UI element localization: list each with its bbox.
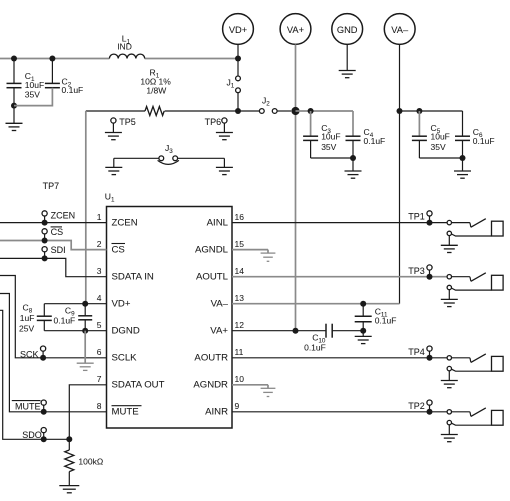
phone jack TP2 bbox=[441, 408, 503, 442]
svg-text:35V: 35V bbox=[25, 89, 40, 99]
junction node at C1 bbox=[11, 56, 17, 62]
svg-text:ZCEN: ZCEN bbox=[51, 211, 76, 221]
junction node C6 bottom bbox=[460, 155, 466, 161]
wire AGNDR bbox=[232, 385, 268, 389]
ground DGND bbox=[77, 331, 94, 371]
ground AGNDL bbox=[261, 253, 276, 261]
svg-text:7: 7 bbox=[97, 374, 102, 384]
svg-text:2: 2 bbox=[97, 239, 102, 249]
capacitor C8 bbox=[19, 302, 52, 333]
inductor L1 bbox=[109, 33, 144, 58]
node TP7 label bbox=[43, 181, 60, 191]
IC U1 body bbox=[105, 191, 232, 428]
junction node SDO pull-down bbox=[66, 436, 72, 442]
wire SDO net bbox=[0, 310, 69, 439]
svg-text:1uF: 1uF bbox=[20, 313, 35, 323]
capacitor C2 bbox=[45, 59, 83, 96]
node SDO test point bbox=[22, 428, 46, 443]
power terminal GND bbox=[332, 14, 363, 45]
svg-text:TP1: TP1 bbox=[408, 212, 425, 222]
svg-text:AINR: AINR bbox=[205, 407, 228, 418]
junction node VD+ rail bbox=[235, 56, 241, 62]
svg-text:ZCEN: ZCEN bbox=[112, 217, 138, 228]
svg-text:11: 11 bbox=[235, 347, 244, 357]
ground J3 right bbox=[216, 158, 233, 174]
svg-text:AOUTR: AOUTR bbox=[194, 353, 228, 364]
junction node C3 branch bbox=[308, 108, 314, 114]
svg-text:0.1uF: 0.1uF bbox=[62, 85, 84, 95]
ground C10 C11 bbox=[355, 331, 372, 344]
node ZCEN test point bbox=[42, 211, 76, 226]
junction node VD+ pin4 bbox=[82, 301, 88, 307]
node MUTE test point bbox=[12, 400, 47, 415]
svg-text:TP3: TP3 bbox=[408, 266, 425, 276]
svg-text:100kΩ: 100kΩ bbox=[78, 456, 103, 466]
svg-text:SDATA OUT: SDATA OUT bbox=[112, 380, 165, 391]
svg-text:CS: CS bbox=[51, 227, 64, 237]
power terminal VD+ bbox=[223, 14, 254, 59]
svg-text:SCLK: SCLK bbox=[112, 353, 138, 364]
U1 left pin numbers bbox=[97, 212, 102, 411]
wire VD+ top rail bbox=[0, 58, 238, 60]
capacitor C1 bbox=[7, 59, 45, 106]
wire AOUTR to TP4 bbox=[232, 357, 447, 359]
wire SDATA OUT net bbox=[69, 385, 106, 440]
wire VA- to pin13 bbox=[232, 303, 400, 305]
capacitor C6 bbox=[455, 111, 495, 158]
wire pin4 row bbox=[44, 303, 106, 305]
svg-text:DGND: DGND bbox=[112, 325, 140, 336]
wire C2 bottom to C1 bottom bbox=[14, 88, 52, 106]
U1 right pin numbers bbox=[235, 212, 245, 411]
junction node C11 top bbox=[360, 301, 366, 307]
node TP4 bbox=[408, 346, 432, 361]
ground TP5 bbox=[105, 123, 122, 140]
wire VD+ vertical to pin 4 bbox=[85, 111, 87, 304]
svg-text:TP5: TP5 bbox=[119, 117, 136, 127]
wire R1 line bbox=[86, 110, 238, 112]
svg-text:13: 13 bbox=[235, 293, 245, 303]
svg-text:TP7: TP7 bbox=[43, 181, 60, 191]
wire AOUTL to TP3 bbox=[232, 276, 447, 278]
svg-text:10uF: 10uF bbox=[431, 132, 450, 142]
capacitor C5 bbox=[412, 111, 450, 158]
node CS test point bbox=[42, 227, 64, 244]
node TP3 bbox=[408, 265, 432, 280]
jumper J3 bbox=[114, 143, 225, 164]
U1 right pin labels bbox=[193, 217, 228, 417]
junction node C11 bottom bbox=[360, 328, 366, 334]
wire C5 bottom to C6 bottom bbox=[419, 157, 462, 159]
capacitor C10 bbox=[304, 324, 363, 353]
node SDI test point bbox=[42, 245, 66, 261]
svg-text:0.1uF: 0.1uF bbox=[364, 136, 386, 146]
svg-text:10uF: 10uF bbox=[321, 132, 340, 142]
svg-text:TP6: TP6 bbox=[205, 117, 222, 127]
jumper J2 bbox=[241, 96, 292, 114]
power terminal VA+ bbox=[280, 14, 311, 45]
wire SDI net bbox=[0, 258, 107, 276]
svg-text:SDO: SDO bbox=[22, 430, 42, 440]
wire VA+ vertical bbox=[295, 44, 297, 330]
junction node C4 bottom bbox=[350, 155, 356, 161]
svg-text:VA–: VA– bbox=[391, 25, 409, 35]
junction node at C2 bbox=[49, 56, 55, 62]
wire ZCEN net bbox=[0, 222, 107, 224]
capacitor C9 bbox=[54, 304, 93, 331]
svg-text:SCK: SCK bbox=[20, 349, 39, 359]
capacitor C3 bbox=[303, 111, 340, 158]
junction node C5 branch bbox=[416, 108, 422, 114]
wire VA+ pin12 bbox=[232, 330, 326, 332]
svg-text:14: 14 bbox=[235, 266, 245, 276]
svg-text:AOUTL: AOUTL bbox=[196, 271, 229, 282]
svg-text:15: 15 bbox=[235, 239, 245, 249]
resistor 100k bbox=[65, 439, 103, 485]
wire VA- to C6 top bbox=[400, 110, 463, 112]
phone jack TP1 bbox=[441, 219, 503, 253]
svg-text:SDI: SDI bbox=[51, 245, 66, 255]
junction node VA+ pin12 bbox=[293, 328, 299, 334]
wire MUTE net bbox=[0, 294, 107, 412]
svg-text:IND: IND bbox=[117, 42, 132, 52]
svg-text:VA–: VA– bbox=[211, 298, 229, 309]
svg-text:12: 12 bbox=[235, 320, 245, 330]
svg-text:4: 4 bbox=[97, 293, 102, 303]
test point TP5 bbox=[111, 117, 136, 127]
wire AINR to TP2 bbox=[232, 411, 447, 413]
svg-text:16: 16 bbox=[235, 212, 245, 222]
U1 left pin labels bbox=[112, 217, 165, 417]
svg-text:MUTE: MUTE bbox=[112, 407, 139, 418]
svg-text:GND: GND bbox=[337, 25, 358, 35]
ground C4 bbox=[345, 158, 362, 178]
test point TP6 bbox=[205, 117, 227, 127]
node TP2 bbox=[408, 400, 432, 415]
svg-text:TP4: TP4 bbox=[408, 347, 425, 357]
svg-text:AGNDR: AGNDR bbox=[193, 380, 228, 391]
node SCK test point bbox=[20, 346, 46, 361]
ground GND terminal bbox=[339, 44, 356, 77]
svg-text:6: 6 bbox=[97, 347, 102, 357]
power terminal VA- bbox=[384, 14, 415, 45]
phone jack TP3 bbox=[441, 273, 503, 307]
resistor R1 bbox=[140, 68, 171, 116]
wire VA- vertical bbox=[399, 44, 401, 303]
svg-text:VA+: VA+ bbox=[287, 25, 304, 35]
svg-text:0.1uF: 0.1uF bbox=[473, 136, 495, 146]
wire pin5 row bbox=[44, 330, 106, 332]
phone jack TP4 bbox=[441, 354, 503, 388]
svg-text:3: 3 bbox=[97, 266, 102, 276]
svg-text:25V: 25V bbox=[19, 324, 34, 334]
svg-text:VD+: VD+ bbox=[112, 298, 131, 309]
wire C3 bottom to C4 bottom bbox=[311, 157, 353, 159]
node TP1 bbox=[408, 211, 432, 226]
ground J3 left bbox=[105, 158, 122, 174]
junction node C9 bottom bbox=[82, 328, 88, 334]
junction node C1 bottom bbox=[11, 103, 17, 109]
svg-text:0.1uF: 0.1uF bbox=[54, 316, 76, 326]
svg-text:AGNDL: AGNDL bbox=[195, 244, 229, 255]
svg-text:SDATA IN: SDATA IN bbox=[112, 271, 154, 282]
wire VA+ to C4 top bbox=[296, 110, 354, 112]
svg-text:AINL: AINL bbox=[207, 217, 229, 228]
svg-text:TP2: TP2 bbox=[408, 401, 425, 411]
capacitor C4 bbox=[346, 111, 386, 158]
svg-text:CS: CS bbox=[112, 244, 125, 255]
svg-text:1: 1 bbox=[97, 212, 102, 222]
svg-text:VA+: VA+ bbox=[210, 325, 228, 336]
ground 100k resistor bbox=[59, 486, 79, 493]
wire SCK net bbox=[0, 276, 107, 358]
wire CS net bbox=[0, 241, 107, 250]
svg-text:1/8W: 1/8W bbox=[146, 86, 166, 96]
wire AINL to TP1 bbox=[232, 222, 447, 224]
svg-text:0.1uF: 0.1uF bbox=[304, 342, 326, 352]
svg-text:MUTE: MUTE bbox=[15, 401, 41, 411]
svg-text:8: 8 bbox=[97, 401, 102, 411]
svg-text:10: 10 bbox=[235, 374, 245, 384]
ground AGNDR bbox=[261, 388, 276, 396]
ground C1 bbox=[6, 106, 23, 131]
svg-text:9: 9 bbox=[235, 401, 240, 411]
ground C6 bbox=[454, 158, 471, 178]
junction node VA- branch bbox=[397, 108, 403, 114]
junction node J2-VA+ bbox=[291, 107, 299, 115]
jumper J1 bbox=[227, 59, 241, 112]
wire AGNDL bbox=[232, 250, 268, 254]
svg-text:35V: 35V bbox=[431, 142, 446, 152]
svg-text:VD+: VD+ bbox=[229, 25, 247, 35]
svg-text:0.1uF: 0.1uF bbox=[375, 316, 397, 326]
junction node J1 bottom bbox=[235, 108, 241, 114]
capacitor C11 bbox=[355, 304, 397, 331]
svg-text:35V: 35V bbox=[321, 142, 336, 152]
ground TP6 bbox=[216, 123, 233, 140]
svg-text:5: 5 bbox=[97, 320, 102, 330]
